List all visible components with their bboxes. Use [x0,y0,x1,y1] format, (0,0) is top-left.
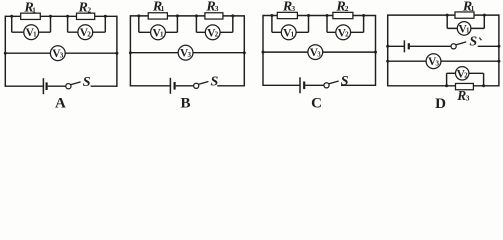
svg-text:3: 3 [215,4,219,13]
svg-text:D: D [435,96,446,108]
svg-text:1: 1 [291,31,295,39]
svg-text:2: 2 [87,5,91,14]
svg-text:2: 2 [464,72,468,80]
svg-text:B: B [180,95,190,108]
svg-text:S: S [469,35,477,50]
svg-text:3: 3 [435,59,439,67]
svg-text:R: R [78,1,88,16]
svg-text:2: 2 [345,31,349,39]
svg-text:1: 1 [466,27,470,35]
svg-text:1: 1 [471,4,475,13]
svg-text:A: A [55,95,66,108]
svg-text:1: 1 [161,4,165,13]
svg-text:2: 2 [215,31,219,39]
svg-text:2: 2 [87,30,91,38]
svg-text:S: S [83,75,91,90]
svg-text:S: S [211,74,219,89]
svg-text:3: 3 [188,51,192,59]
svg-text:3: 3 [291,4,295,13]
svg-text:3: 3 [60,51,64,59]
svg-text:3: 3 [317,50,321,58]
svg-text:R: R [456,88,466,103]
svg-text:3: 3 [466,94,470,103]
svg-text:1: 1 [160,31,164,39]
svg-text:1: 1 [33,30,37,38]
svg-text:1: 1 [32,5,36,14]
svg-text:C: C [311,95,322,108]
svg-text:2: 2 [345,4,349,13]
svg-text:S: S [341,74,349,89]
